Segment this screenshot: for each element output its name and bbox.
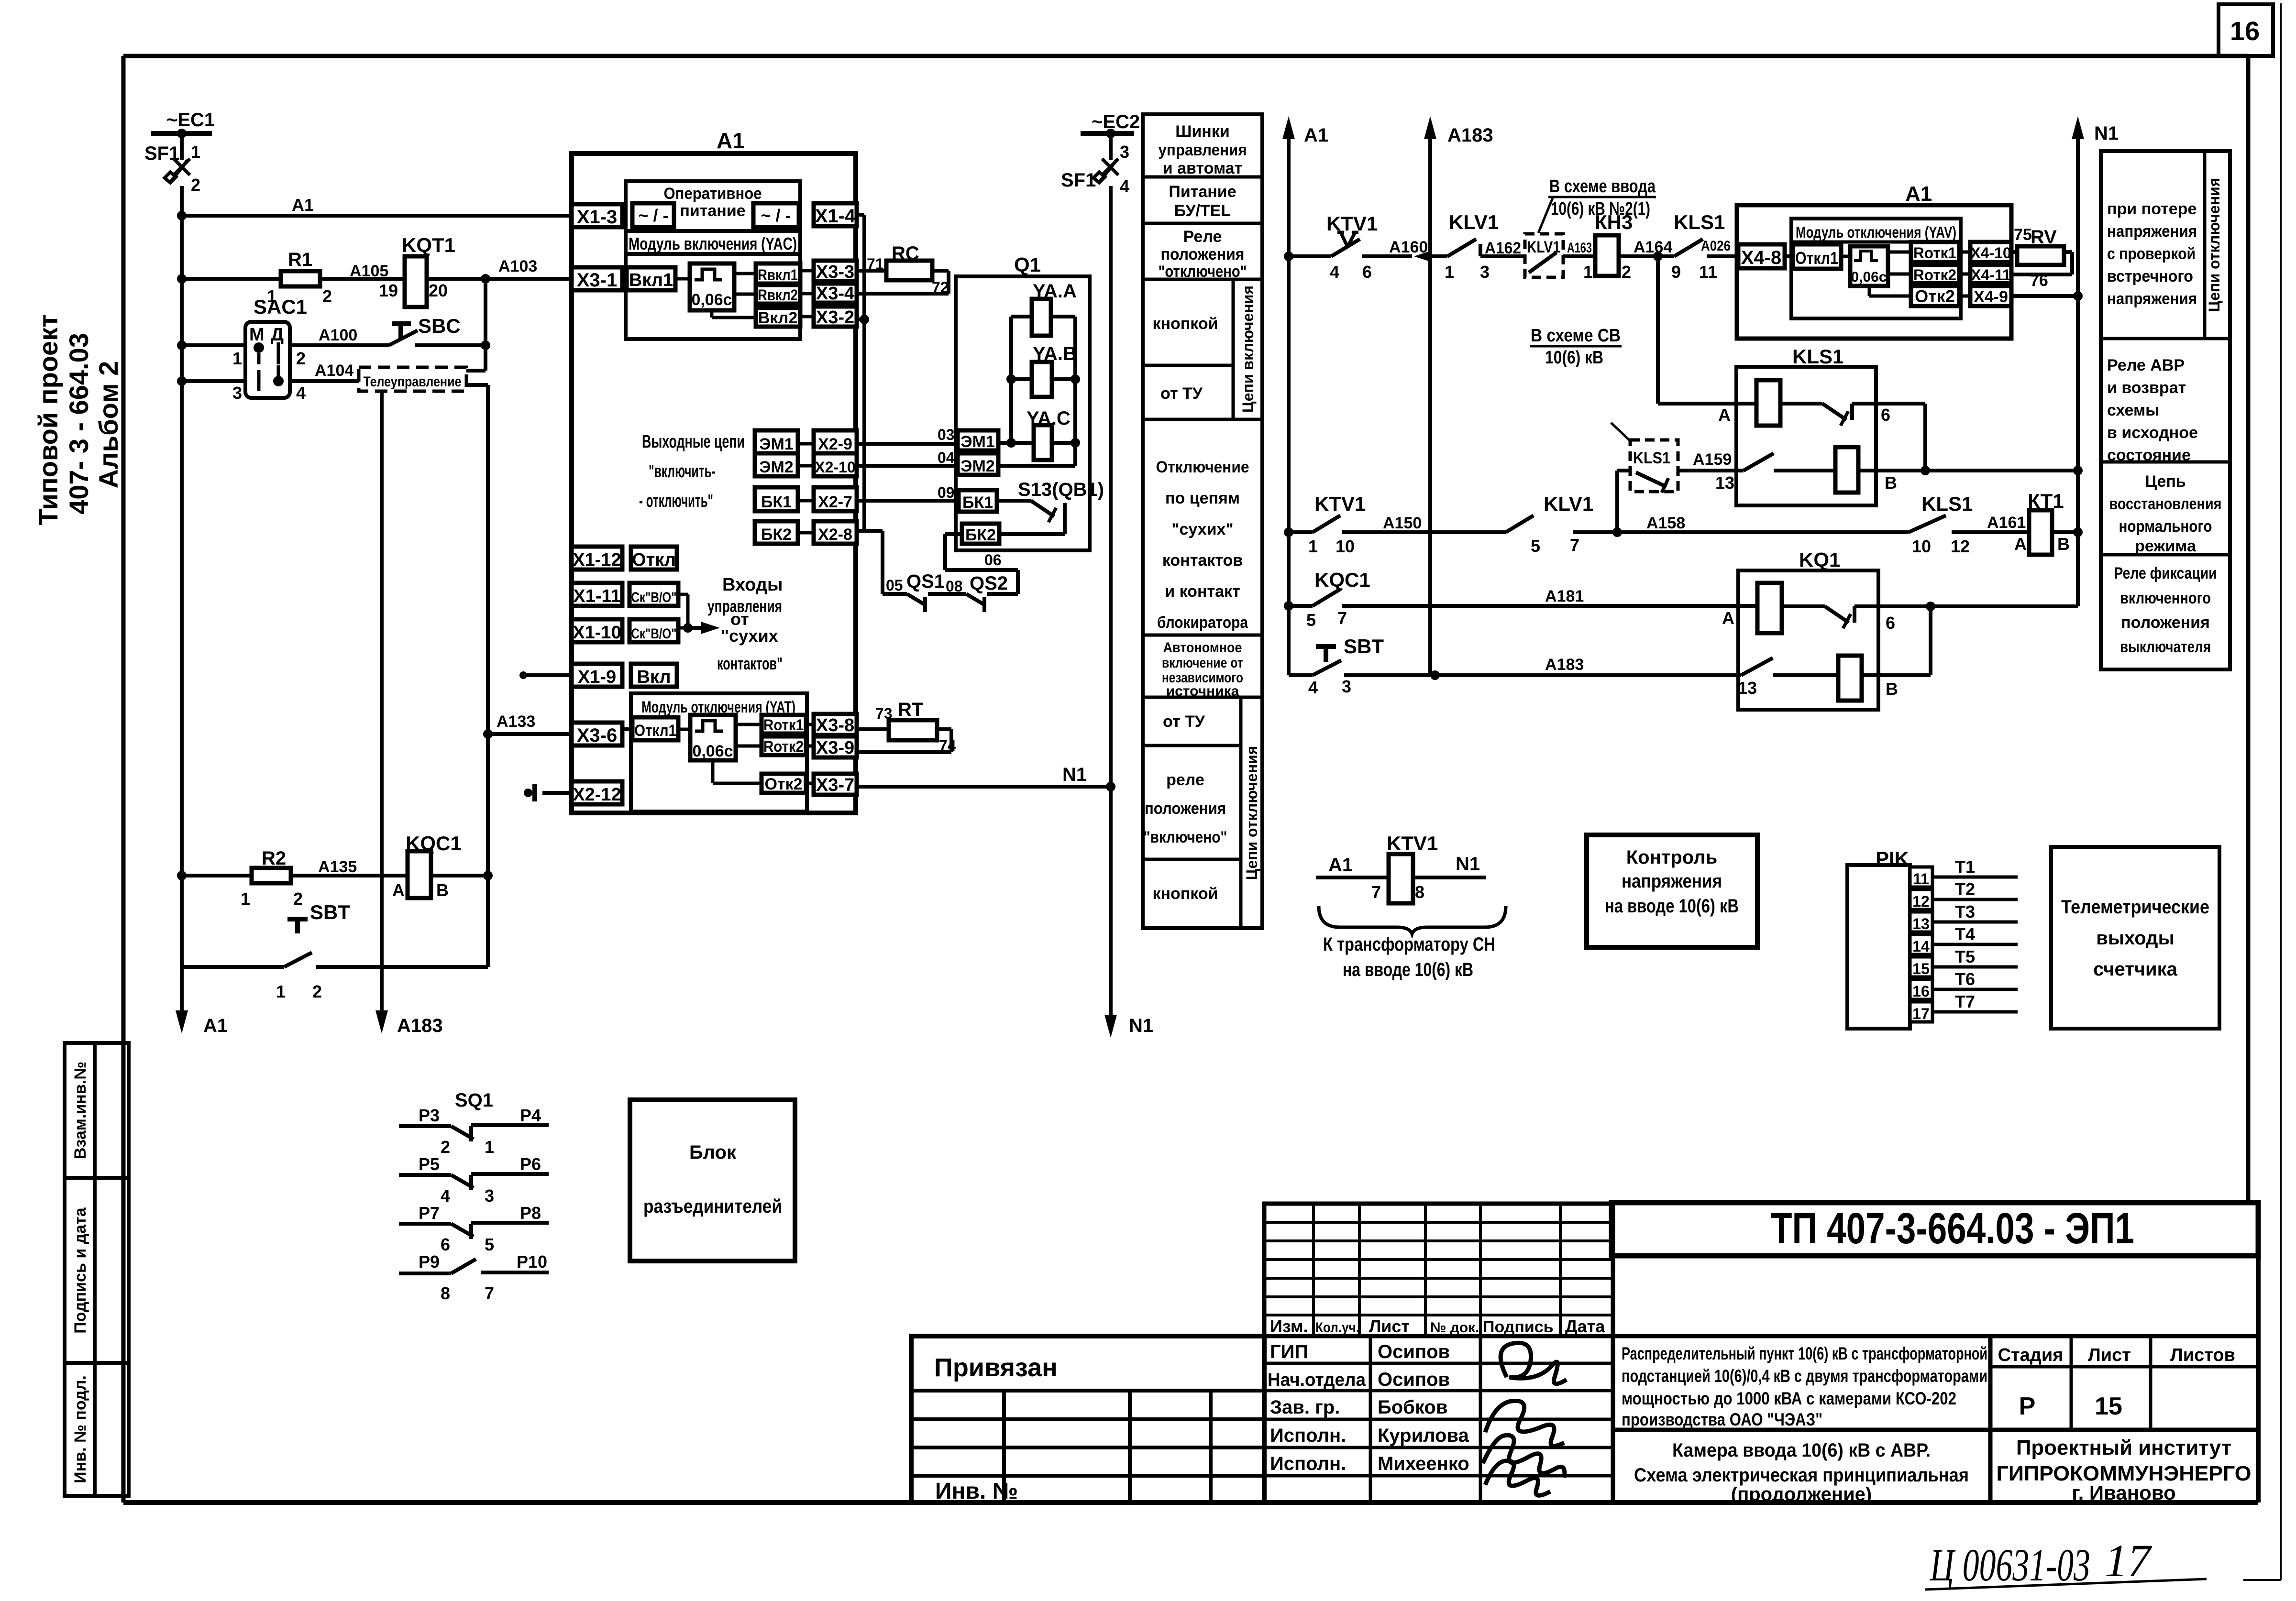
terminal X1-4 (814, 203, 857, 226)
svg-text:1: 1 (241, 889, 250, 909)
button SBT lower (287, 917, 308, 921)
svg-text:Т4: Т4 (1955, 924, 1975, 944)
svg-text:БК1: БК1 (962, 493, 993, 512)
svg-text:1: 1 (1308, 537, 1318, 556)
svg-text:X1-12: X1-12 (573, 550, 621, 570)
svg-text:A1: A1 (717, 128, 745, 153)
relay coil KT1 (2029, 510, 2052, 555)
svg-text:16: 16 (1912, 983, 1930, 1000)
svg-text:06: 06 (984, 551, 1002, 569)
svg-text:В: В (1885, 473, 1897, 493)
wire T4 (1932, 943, 2018, 946)
svg-text:Т2: Т2 (1955, 879, 1975, 899)
svg-text:KLS1: KLS1 (1792, 345, 1843, 368)
svg-text:A1: A1 (203, 1015, 228, 1036)
svg-text:Альбом 2: Альбом 2 (93, 361, 123, 489)
svg-text:20: 20 (429, 281, 448, 300)
svg-text:Т6: Т6 (1955, 969, 1975, 989)
svg-text:1: 1 (1445, 262, 1454, 282)
bracket dry contact inputs (678, 593, 688, 596)
terminal X3-4 (814, 284, 857, 303)
right comment table (2101, 151, 2230, 669)
svg-text:№ док.: № док. (1430, 1320, 1479, 1336)
svg-text:1: 1 (1583, 262, 1593, 282)
svg-text:г. Иваново: г. Иваново (2072, 1481, 2175, 1504)
svg-text:15: 15 (2095, 1393, 2122, 1420)
device box A1 (572, 154, 856, 813)
svg-text:Стадия: Стадия (1998, 1345, 2064, 1365)
svg-text:на вводе 10(6) кВ: на вводе 10(6) кВ (1605, 896, 1739, 917)
svg-text:N1: N1 (1456, 854, 1480, 875)
svg-text:X3-9: X3-9 (816, 738, 854, 758)
timer box 0,06s YAT (690, 715, 736, 760)
note box Blok razyedinteley (630, 1100, 795, 1261)
contact SQ1 P3-P4 (399, 1124, 451, 1128)
svg-text:БК1: БК1 (761, 493, 792, 511)
svg-text:Осипов: Осипов (1378, 1369, 1450, 1390)
svg-text:SAC1: SAC1 (254, 296, 307, 318)
svg-text:ЭМ1: ЭМ1 (960, 433, 994, 451)
svg-text:A104: A104 (315, 362, 353, 380)
svg-text:2: 2 (296, 349, 306, 368)
svg-text:X3-1: X3-1 (577, 270, 618, 291)
relay block KQ1 (1738, 570, 1878, 710)
node A1 junction at bus (177, 211, 187, 220)
svg-text:А: А (1718, 405, 1731, 425)
terminal X1-10 and Sk V/O 2 (572, 619, 622, 642)
svg-text:Rотк2: Rотк2 (763, 738, 804, 755)
svg-text:X2-7: X2-7 (818, 493, 852, 511)
wire X4-9 to N1 (2011, 294, 2078, 298)
svg-text:P4: P4 (520, 1106, 541, 1125)
terminal PIK 17 (1910, 1002, 1932, 1022)
svg-text:Дата: Дата (1565, 1316, 1605, 1336)
page outer scan border right (2280, 3, 2282, 1580)
output box Rotk2 YAV (1911, 265, 1959, 283)
svg-text:KQT1: KQT1 (402, 234, 455, 256)
svg-text:QS2: QS2 (970, 573, 1008, 594)
svg-text:X1-11: X1-11 (573, 586, 620, 606)
svg-text:A1: A1 (1304, 125, 1328, 146)
wire A164 node down to KLS1 A (1656, 256, 1660, 404)
svg-text:12: 12 (1951, 537, 1970, 556)
wire A183 vertical from teleupravlenie (380, 391, 384, 1027)
node X4-9 N1 junction (2073, 291, 2083, 301)
svg-text:Вкл1: Вкл1 (629, 270, 673, 290)
svg-text:положения: положения (2121, 614, 2210, 632)
svg-text:Листов: Листов (2170, 1345, 2235, 1365)
svg-text:P5: P5 (419, 1154, 440, 1174)
svg-text:ЭМ2: ЭМ2 (960, 457, 994, 475)
svg-text:Цепи отключения: Цепи отключения (1243, 746, 1260, 880)
svg-text:А164: А164 (1634, 238, 1672, 256)
svg-text:KLS1: KLS1 (1674, 211, 1725, 233)
output box Rotk2 (762, 736, 806, 755)
svg-text:А159: А159 (1693, 450, 1732, 469)
wire N1 vertical to KQ1 row (2076, 287, 2080, 606)
svg-text:A162: A162 (1485, 239, 1521, 257)
svg-text:Цепь: Цепь (2145, 472, 2186, 491)
wire T5 (1932, 965, 2018, 969)
svg-text:KLS1: KLS1 (1921, 493, 1973, 515)
jumpers left boxes to terminals (798, 442, 814, 446)
svg-text:В: В (2057, 534, 2070, 554)
terminal X1-9 and Vkl (572, 664, 622, 687)
breaker SF1 (180, 133, 184, 160)
svg-text:Rвкл2: Rвкл2 (758, 286, 798, 304)
svg-text:6: 6 (1881, 405, 1890, 425)
svg-text:Rвкл1: Rвкл1 (758, 266, 798, 284)
input box Otkl1 YAT (632, 717, 678, 740)
svg-text:Схема электрическая принципиал: Схема электрическая принципиальная (1634, 1465, 1969, 1486)
svg-text:5: 5 (485, 1235, 494, 1254)
terminal X2-9 (814, 430, 857, 453)
svg-text:Реле фиксации: Реле фиксации (2114, 564, 2217, 582)
terminal PIK 14 (1910, 934, 1932, 954)
resistor R2 (252, 868, 291, 883)
svg-text:Изм.: Изм. (1270, 1316, 1308, 1336)
svg-text:при потере: при потере (2107, 200, 2197, 218)
svg-text:режима: режима (2135, 537, 2197, 555)
svg-text:и автомат: и автомат (1163, 159, 1243, 177)
svg-text:Ск"В/О": Ск"В/О" (631, 590, 677, 605)
svg-text:блокиратора: блокиратора (1157, 614, 1248, 632)
wire teleupravlenie bottom pin down (466, 383, 488, 387)
contact KQ1 6 (1782, 604, 1825, 608)
arrow into A183 line (1414, 251, 1430, 262)
svg-text:X4-10: X4-10 (1970, 244, 2011, 262)
relay coil KQC1 lower (408, 851, 431, 898)
svg-text:KQC1: KQC1 (406, 832, 462, 855)
arrow A183 up (1428, 126, 1432, 675)
svg-text:11: 11 (1699, 262, 1717, 282)
svg-text:напряжения: напряжения (2107, 290, 2197, 308)
svg-text:Т7: Т7 (1955, 992, 1975, 1011)
title block change table (1264, 1204, 1613, 1336)
wires inside YAV (1785, 254, 1793, 258)
svg-text:Телеметрические: Телеметрические (2061, 897, 2209, 918)
svg-text:положения: положения (1145, 800, 1226, 818)
svg-text:X4-9: X4-9 (1974, 288, 2008, 306)
svg-text:управления: управления (1159, 141, 1247, 159)
switch SAC1 (245, 322, 290, 398)
svg-text:5: 5 (1531, 536, 1540, 556)
svg-text:09: 09 (938, 484, 955, 501)
svg-text:11: 11 (1913, 870, 1929, 888)
title block left part Privyazan (911, 1336, 1264, 1502)
svg-text:А: А (2014, 534, 2027, 554)
wire SAC1 row 1 A100 (177, 340, 187, 350)
svg-text:SQ1: SQ1 (455, 1090, 493, 1111)
svg-text:А: А (1722, 608, 1734, 628)
input box Otkl1 YAV (1793, 244, 1841, 269)
svg-text:КТ1: КТ1 (2028, 490, 2064, 512)
disconnector QS2 (966, 594, 985, 605)
svg-text:19: 19 (379, 281, 398, 300)
svg-text:2: 2 (1622, 262, 1631, 282)
svg-text:БК2: БК2 (965, 526, 996, 544)
svg-text:Отключение: Отключение (1156, 458, 1249, 476)
svg-text:кнопкой: кнопкой (1152, 885, 1218, 903)
svg-text:A160: A160 (1389, 238, 1428, 256)
svg-text:2: 2 (293, 889, 303, 909)
svg-text:1: 1 (485, 1137, 494, 1157)
title block signature rows (1264, 1336, 1613, 1502)
terminal X4-11 (1970, 265, 2011, 283)
terminal X3-2 (814, 307, 857, 327)
wire YA left bus (1009, 317, 1013, 443)
svg-text:В: В (1886, 679, 1898, 699)
svg-text:10: 10 (1336, 537, 1355, 556)
arrow N1 up right (2076, 126, 2080, 606)
svg-text:Лист: Лист (2088, 1345, 2131, 1365)
svg-text:мощностью до 1000 кВА с камера: мощностью до 1000 кВА с камерами КСО-202 (1622, 1389, 1956, 1408)
svg-text:схемы: схемы (2107, 401, 2159, 419)
node A103 (481, 274, 490, 284)
svg-text:"сухих: "сухих (721, 626, 778, 646)
terminal X2-8 (814, 521, 857, 544)
output box Rvkl1 (756, 263, 800, 284)
svg-text:встречного: встречного (2107, 267, 2193, 285)
title block right outline (2256, 1203, 2261, 1502)
relay block KLS1 (1736, 367, 1876, 505)
contact SQ1 P5-P6 (399, 1173, 451, 1177)
wire X2-10 to EM2 (857, 464, 958, 468)
svg-text:13: 13 (1715, 473, 1734, 493)
button SBT row A183 (1287, 606, 1291, 675)
reference contact KLV1 dashed box (1525, 234, 1563, 277)
svg-text:"включено": "включено" (1144, 828, 1227, 846)
signature squiggles (1501, 1343, 1567, 1384)
svg-text:4: 4 (1308, 678, 1318, 697)
svg-text:15: 15 (1912, 960, 1930, 977)
svg-text:A181: A181 (1545, 587, 1584, 605)
page frame top border (123, 54, 2248, 58)
svg-text:KQC1: KQC1 (1314, 569, 1370, 591)
svg-text:Откл1: Откл1 (1795, 248, 1838, 268)
svg-text:Входы: Входы (722, 575, 783, 595)
svg-text:KLV1: KLV1 (1449, 211, 1499, 233)
svg-text:Исполн.: Исполн. (1270, 1453, 1346, 1474)
svg-text:М: М (249, 325, 265, 345)
left margin stamp boxes (65, 1043, 95, 1496)
svg-text:производства ОАО "ЧЭАЗ": производства ОАО "ЧЭАЗ" (1622, 1410, 1822, 1429)
node A164 junction (1653, 252, 1663, 261)
svg-text:QS1: QS1 (906, 571, 945, 592)
terminal PIK 11 (1910, 867, 1932, 887)
svg-text:Реле АВР: Реле АВР (2107, 356, 2185, 374)
svg-text:напряжения: напряжения (2107, 222, 2197, 241)
svg-text:SBT: SBT (310, 901, 350, 923)
svg-text:5: 5 (1306, 610, 1316, 630)
terminal X3-3 (814, 261, 857, 281)
svg-text:Откл: Откл (632, 550, 676, 570)
svg-text:X2-9: X2-9 (818, 435, 852, 453)
svg-text:Михеенко: Михеенко (1378, 1453, 1469, 1474)
svg-text:3: 3 (1342, 677, 1351, 696)
terminal X4-8 (1738, 244, 1785, 268)
output box Rvkl2 (756, 285, 800, 304)
node KQ1 junction (1926, 602, 1935, 611)
terminal X3-8 (814, 714, 857, 735)
breaker SF1 second pole (1109, 133, 1113, 160)
svg-text:Q1: Q1 (1014, 253, 1041, 276)
svg-text:A183: A183 (1447, 125, 1493, 146)
terminal X4-10 (1970, 242, 2011, 262)
page frame right inner border (2246, 56, 2251, 1203)
AC/DC box right (753, 203, 799, 227)
svg-text:Р: Р (2019, 1393, 2036, 1420)
svg-text:Т3: Т3 (1955, 902, 1975, 921)
svg-text:X1-10: X1-10 (573, 623, 621, 643)
node X3-2 rail junction (857, 318, 864, 321)
svg-text:включение от: включение от (1162, 655, 1243, 671)
coil KQ1 A (1757, 583, 1782, 633)
arrow A1 down (180, 967, 184, 1024)
svg-text:R1: R1 (288, 249, 312, 270)
svg-text:Подпись и дата: Подпись и дата (71, 1207, 89, 1334)
svg-text:~EC1: ~EC1 (166, 110, 215, 131)
terminal X3-6 (572, 723, 622, 746)
node A133 junction (483, 729, 493, 739)
svg-text:восстановления: восстановления (2109, 495, 2222, 513)
contact KQ1 13 (1741, 658, 1773, 675)
svg-text:источника: источника (1166, 683, 1239, 699)
page frame bottom border (123, 1500, 2258, 1505)
svg-text:ЭМ2: ЭМ2 (759, 458, 793, 476)
timer box 0,06s YAC (690, 263, 734, 310)
svg-text:S13(QB1): S13(QB1) (1018, 479, 1104, 500)
svg-text:Инв. №: Инв. № (935, 1479, 1018, 1504)
svg-text:KTV1: KTV1 (1387, 832, 1438, 855)
wires inside YAT module (622, 727, 632, 731)
svg-text:RT: RT (898, 699, 923, 720)
svg-text:Бобков: Бобков (1378, 1397, 1447, 1418)
svg-text:Распределительный пункт 10(6): Распределительный пункт 10(6) кВ с транс… (1622, 1344, 1987, 1363)
terminal PIK 15 (1910, 957, 1932, 977)
output box Otk2 (762, 774, 806, 793)
svg-text:7: 7 (1371, 882, 1381, 902)
coil KLS1 A (1756, 380, 1780, 426)
svg-text:положения: положения (1161, 245, 1245, 263)
svg-text:Взам.инв.№: Взам.инв.№ (71, 1062, 89, 1159)
svg-text:Питание: Питание (1169, 183, 1236, 201)
vertical X1-4 X3-2 X2-8 rail (857, 213, 864, 217)
wire A164 (1619, 254, 1658, 258)
svg-text:Т1: Т1 (1955, 857, 1975, 877)
output box Rotk1 YAV (1911, 242, 1959, 262)
note box Kontrol napryazheniya (1587, 835, 1757, 947)
svg-text:N1: N1 (2094, 123, 2119, 144)
svg-text:4: 4 (1120, 176, 1129, 196)
svg-text:X2-12: X2-12 (573, 785, 621, 805)
svg-text:и возврат: и возврат (2107, 379, 2186, 397)
svg-text:2: 2 (312, 982, 322, 1001)
svg-text:В схеме СВ: В схеме СВ (1531, 326, 1621, 346)
svg-text:Контроль: Контроль (1626, 847, 1717, 868)
svg-text:с проверкой: с проверкой (2107, 245, 2196, 263)
svg-text:Типовой проект: Типовой проект (33, 314, 63, 525)
svg-text:A135: A135 (318, 858, 357, 876)
svg-text:Rотк2: Rотк2 (1913, 266, 1956, 284)
svg-text:Проектный институт: Проектный институт (2016, 1436, 2231, 1459)
svg-text:Исполн.: Исполн. (1270, 1425, 1346, 1446)
svg-text:~ / -: ~ / - (638, 206, 668, 225)
svg-text:17: 17 (1912, 1005, 1930, 1022)
wire A1 to X1-3 (182, 214, 572, 218)
svg-text:выходы: выходы (2096, 928, 2174, 949)
svg-text:A100: A100 (319, 326, 357, 344)
svg-text:Вкл: Вкл (637, 667, 671, 687)
node KLS1 out junction (1921, 466, 1930, 475)
svg-text:ТП 407-3-664.03 - ЭП1: ТП 407-3-664.03 - ЭП1 (1771, 1204, 2134, 1253)
contact KLV1 top row (1430, 254, 1447, 258)
svg-text:включенного: включенного (2120, 589, 2211, 607)
sheet number box 16 (2219, 4, 2273, 56)
terminal X1-3 (572, 204, 622, 227)
terminal PIK 13 (1910, 912, 1932, 932)
svg-text:A183: A183 (1545, 656, 1584, 674)
contact KLS1 6 (1780, 402, 1822, 406)
svg-text:БУ/TEL: БУ/TEL (1174, 202, 1231, 220)
svg-text:Осипов: Осипов (1378, 1341, 1450, 1362)
svg-text:Инв. № подл.: Инв. № подл. (71, 1375, 89, 1483)
arrow A183 down (380, 980, 384, 1024)
svg-text:1: 1 (232, 349, 242, 368)
svg-text:Ск"В/О": Ск"В/О" (631, 626, 677, 642)
wire X2-8 to QS1 (857, 529, 883, 533)
svg-text:в исходное: в исходное (2107, 424, 2198, 442)
svg-text:KLV1: KLV1 (1544, 493, 1593, 515)
svg-text:нормального: нормального (2119, 517, 2212, 536)
svg-text:P6: P6 (520, 1154, 541, 1174)
wire R2 row from bus (177, 871, 187, 880)
svg-text:К трансформатору СН: К трансформатору СН (1323, 934, 1495, 955)
svg-text:0,06с: 0,06с (692, 742, 733, 760)
svg-text:X3-6: X3-6 (577, 725, 618, 746)
svg-text:контактов: контактов (1162, 551, 1243, 570)
svg-text:по цепям: по цепям (1165, 489, 1240, 507)
wire N1 from X3-7 (857, 785, 1111, 789)
svg-text:P7: P7 (419, 1203, 440, 1223)
relay coil KN3 (1595, 235, 1619, 276)
wire from A158 node up to KLS1-SV contact (1615, 471, 1619, 532)
svg-text:Ц 00631-03: Ц 00631-03 (1930, 1539, 2090, 1590)
svg-text:A1: A1 (1328, 855, 1353, 876)
svg-text:13: 13 (1738, 678, 1757, 698)
output box EM2 left (755, 453, 798, 476)
svg-text:Отк2: Отк2 (1915, 286, 1955, 306)
svg-text:БК2: БК2 (761, 526, 792, 544)
module otklyucheniya YAV box (1791, 219, 1961, 318)
wire T6 (1932, 988, 2018, 991)
wire YA right bus (1073, 317, 1077, 466)
svg-text:X1-4: X1-4 (815, 206, 856, 227)
svg-text:P3: P3 (419, 1106, 440, 1125)
wire A163 (1563, 254, 1595, 258)
relay coil KQT1 (405, 256, 427, 307)
output box Vkl2 (756, 308, 800, 327)
output box BK2 left (755, 521, 798, 544)
title block document number box TP 407-3-664.03 - EP1 (1612, 1203, 2258, 1256)
terminal EM1 Q1 (958, 430, 998, 450)
svg-text:N1: N1 (1062, 764, 1087, 785)
svg-text:A103: A103 (498, 257, 537, 275)
svg-text:Кол.уч.: Кол.уч. (1315, 1320, 1359, 1336)
output box BK1 left (755, 487, 798, 511)
svg-text:Откл1: Откл1 (634, 722, 676, 740)
wire T7 (1932, 1010, 2018, 1014)
